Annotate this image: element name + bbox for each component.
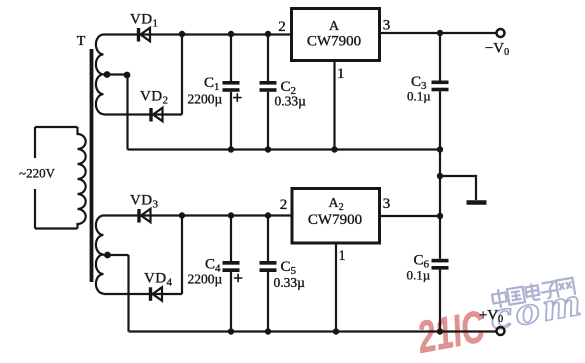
node C5 bottom: [265, 328, 271, 334]
wire pin1 A2 to +V0 rail: [335, 243, 337, 332]
watermark chinese characters 中国电子网: [491, 278, 575, 309]
svg-text:0.1µ: 0.1µ: [407, 89, 431, 104]
node tap1 winding: [104, 71, 111, 78]
node VD1-VD2 junction: [179, 31, 185, 37]
transformer secondary winding 1 (top): [96, 35, 104, 115]
svg-text:2200µ: 2200µ: [188, 272, 223, 287]
svg-text:A: A: [329, 19, 340, 34]
char zi: [539, 281, 558, 299]
node tap1 corner: [124, 72, 131, 79]
ground stub wire: [440, 176, 476, 200]
wire lower input rail: [104, 214, 293, 216]
wire pin1 A to ground rail: [333, 61, 335, 150]
diode VD4: [151, 287, 163, 301]
transformer secondary winding 2 (bottom): [96, 216, 104, 294]
wire primary top: [35, 126, 78, 128]
node pin1 A ground: [331, 146, 337, 152]
node A2 output: [437, 213, 443, 219]
wire ground rail top half: [128, 148, 441, 150]
capacitor C1: [223, 34, 242, 150]
char dian: [525, 283, 540, 302]
wire primary left upper: [34, 127, 36, 158]
wire center tap 1: [104, 73, 128, 75]
svg-text:CW7900: CW7900: [308, 212, 362, 228]
node ground stub: [437, 173, 443, 179]
wire from winding through VD2 to junction: [104, 113, 183, 115]
output terminal -V0: [497, 29, 505, 37]
node C5 top: [265, 212, 271, 218]
wire pin3 output A2: [380, 215, 441, 217]
svg-text:0.1µ: 0.1µ: [407, 268, 431, 283]
node C4 top: [228, 212, 234, 218]
circuit drawing: [35, 9, 505, 336]
svg-text:1: 1: [337, 66, 345, 82]
svg-text:0.33µ: 0.33µ: [274, 275, 306, 290]
capacitor C2: [260, 34, 277, 150]
svg-text:~220V: ~220V: [19, 166, 56, 181]
node -V0 line / C3: [437, 30, 443, 36]
svg-text:1: 1: [338, 248, 346, 264]
capacitor C3: [432, 33, 449, 150]
watermark text 21IC: [413, 302, 489, 363]
watermark 21ic.com: [413, 278, 585, 363]
wire center tap 2 vertical: [127, 255, 129, 332]
node C4 bottom: [228, 328, 234, 334]
svg-text:CW7900: CW7900: [307, 34, 361, 50]
node C6 bottom: [437, 328, 443, 334]
svg-text:T: T: [77, 34, 86, 49]
watermark text .com: [487, 278, 585, 338]
wire center tap 1 vertical: [126, 75, 128, 150]
svg-text:3: 3: [383, 18, 391, 34]
node ground rail corner: [437, 146, 443, 152]
wire top rail: [104, 33, 292, 35]
output terminal +V0: [497, 327, 505, 335]
node C1 top: [228, 31, 234, 37]
svg-text:2: 2: [280, 197, 288, 213]
diode VD1: [139, 28, 151, 42]
node pin1 A2: [333, 328, 339, 334]
wire primary bottom: [35, 227, 78, 229]
svg-text:0.33µ: 0.33µ: [275, 94, 307, 109]
node C2 bottom: [265, 146, 271, 152]
char wang: [556, 278, 575, 298]
ground symbol: [467, 200, 487, 205]
wire pin3 output A: [380, 32, 497, 34]
node VD3-VD4 junction: [179, 212, 185, 218]
wire middle vertical ground net: [439, 150, 441, 259]
wire VD1/VD2 junction vertical: [181, 34, 183, 115]
wire VD3/VD4 junction vertical: [181, 216, 183, 295]
svg-text:2: 2: [278, 19, 286, 35]
capacitor C6: [432, 259, 449, 332]
wire +V0 bottom rail: [129, 330, 497, 332]
wire from winding 2 through VD4 to junction: [104, 293, 183, 295]
node C2 top: [265, 31, 271, 37]
node C1 bottom: [228, 146, 234, 152]
svg-text:2200µ: 2200µ: [188, 92, 223, 107]
diode VD2: [151, 108, 163, 122]
wire primary left lower: [34, 189, 36, 229]
transformer primary winding: [78, 127, 86, 229]
capacitor C4: [223, 216, 243, 332]
capacitor C5: [260, 216, 277, 332]
transformer core: [90, 49, 94, 282]
wire center tap 2: [104, 254, 129, 256]
char guo: [507, 287, 525, 305]
node tap2 winding: [104, 252, 111, 259]
op-amp regulator U2 box A2 CW7900: [292, 189, 380, 244]
diode VD3: [139, 209, 151, 223]
char zhong: [491, 288, 507, 309]
op-amp regulator U1 box A CW7900: [292, 9, 380, 61]
svg-text:3: 3: [383, 196, 391, 212]
